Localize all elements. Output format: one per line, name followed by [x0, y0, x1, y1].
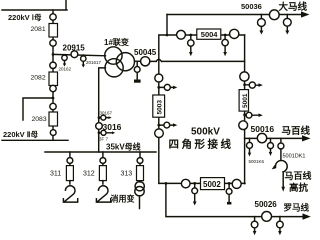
- svg-text:2081: 2081: [31, 26, 46, 33]
- svg-text:5001K6: 5001K6: [249, 159, 265, 164]
- wire to transformer: [53, 54, 106, 55]
- breaker 2082: [49, 72, 58, 86]
- svg-text:5001: 5001: [242, 93, 249, 108]
- transformer 313 winding2: [135, 187, 144, 196]
- wire hop over left branch: [156, 59, 161, 61]
- node junction feeder/transformer-wire: [52, 53, 55, 56]
- grounding switch below 3016: [99, 132, 112, 134]
- disconnector 2081-lower: [50, 40, 56, 46]
- svg-text:消用变: 消用变: [111, 194, 135, 204]
- transformer U1 winding MV: [116, 53, 134, 71]
- wire drop from top line to 5004 loop: [166, 15, 168, 36]
- svg-text:500kV: 500kV: [191, 126, 220, 137]
- grounding switch left of 50036: [260, 15, 262, 31]
- grounding switch 5002-left: [194, 183, 196, 201]
- breaker 5001: [239, 90, 248, 112]
- disconnector left-branch lower: [155, 129, 164, 138]
- disconnector 5002-right: [232, 179, 241, 188]
- grounding switch above 5003: [159, 86, 173, 88]
- disconnector reactor branch: [280, 138, 282, 143]
- bus 220kV I: [2, 0, 67, 10]
- grounding switch below 5003: [159, 124, 173, 126]
- svg-text:50016: 50016: [251, 124, 275, 134]
- wire 5004 loop top rail: [160, 34, 245, 36]
- branch 312: disconnector: [102, 152, 104, 181]
- disconnector right-branch upper: [240, 72, 249, 81]
- svg-text:5002: 5002: [203, 180, 221, 189]
- disconnector 5004-left: [177, 30, 186, 39]
- grounding switch right of 50036: [286, 15, 288, 31]
- breaker 311: [66, 166, 73, 181]
- breaker 5004: [197, 29, 221, 39]
- grounding switch 马百线-2: [270, 138, 272, 152]
- svg-text:马百线: 马百线: [282, 125, 311, 137]
- wire stub left from feeder-A: [23, 98, 53, 120]
- disconnector 5004-right: [230, 29, 239, 38]
- bus 35kV: [45, 151, 156, 153]
- svg-text:2083: 2083: [32, 116, 47, 123]
- disconnector below 2082: [50, 85, 56, 91]
- grounding switch 5004-right: [224, 35, 226, 52]
- transformer U1 1#联变 winding HV: [105, 47, 122, 64]
- wire 罗马线 drop and line: [166, 183, 305, 216]
- coil symbol branch 312: [96, 181, 110, 203]
- svg-text:5003: 5003: [157, 100, 164, 115]
- coil symbol branch 311: [63, 181, 77, 203]
- svg-text:3F 7: 3F 7: [99, 137, 109, 142]
- wire left quad branch vertical: [158, 35, 160, 183]
- svg-text:313: 313: [121, 171, 133, 178]
- wire 313 tail: [139, 196, 141, 209]
- svg-text:20915: 20915: [63, 43, 86, 52]
- transformer 313 winding1: [135, 182, 144, 191]
- wire 500kV lead / rail2: [135, 60, 157, 62]
- disconnector 50026: [262, 212, 272, 222]
- svg-text:30167: 30167: [100, 111, 113, 116]
- branch 313: disconnector: [139, 152, 141, 182]
- breaker 5002: [201, 178, 225, 190]
- wire 大马线 top line: [167, 14, 303, 16]
- svg-text:高抗: 高抗: [289, 182, 309, 194]
- svg-text:四角形接线: 四角形接线: [169, 137, 234, 150]
- grounding switch 马百线-1: [249, 138, 251, 152]
- breaker 312: [99, 166, 106, 181]
- grounding switch below 5001: [245, 114, 259, 116]
- wire feeder-A vertical: [52, 10, 54, 140]
- disconnector below 2083: [50, 130, 56, 136]
- grounding switch 30167: [99, 117, 109, 119]
- svg-text:2082: 2082: [31, 74, 46, 81]
- bus 220kV II: [2, 139, 68, 141]
- breaker 2081: [49, 24, 58, 38]
- branch 311: disconnector: [69, 152, 71, 181]
- svg-text:50045: 50045: [134, 48, 157, 57]
- svg-text:35kV母线: 35kV母线: [106, 141, 141, 151]
- breaker 313: [137, 166, 144, 181]
- disconnector 20915: [71, 51, 78, 58]
- svg-text:5004: 5004: [201, 30, 219, 39]
- breaker 2083: [49, 112, 58, 126]
- grounding switch 罗马线-1: [254, 217, 256, 231]
- disconnector on 马百线: [257, 133, 266, 142]
- disconnector 50016: [239, 121, 248, 130]
- node junction stub: [52, 97, 55, 100]
- disconnector 50036: [269, 10, 279, 20]
- disconnector 5002-left: [181, 179, 190, 188]
- svg-text:311: 311: [50, 171, 61, 178]
- wire 35kV lead: [99, 68, 106, 152]
- transformer U1 winding LV: [105, 59, 123, 77]
- wire rail2 to right branch: [162, 60, 245, 62]
- svg-text:220kV Ⅱ母: 220kV Ⅱ母: [3, 130, 38, 139]
- node junction top-line drop: [166, 34, 169, 37]
- grounding switch above 5001: [245, 84, 259, 86]
- wire 5002 loop bottom rail: [159, 182, 245, 184]
- breaker 5003: [153, 95, 165, 117]
- disconnector above 2083: [50, 103, 56, 109]
- disconnector left-branch upper: [155, 74, 163, 82]
- reactor 马百线高抗: [280, 149, 282, 161]
- grounding switch 5002-right: [228, 183, 230, 202]
- transformer neutral ground: [136, 63, 138, 80]
- svg-text:20162: 20162: [59, 67, 72, 72]
- svg-text:201617: 201617: [86, 60, 102, 65]
- disconnector 3016: [96, 123, 103, 130]
- svg-text:50036: 50036: [241, 2, 262, 11]
- disconnector 50045: [141, 57, 150, 66]
- svg-text:312: 312: [83, 171, 95, 178]
- svg-text:220kV Ⅰ母: 220kV Ⅰ母: [8, 13, 42, 22]
- svg-text:大马线: 大马线: [279, 1, 308, 13]
- grounding switch 罗马线-2: [279, 217, 281, 231]
- grounding switch 201617: [82, 55, 84, 65]
- svg-text:5001DK1: 5001DK1: [283, 154, 306, 160]
- disconnector 2081-upper: [50, 14, 56, 20]
- grounding switch 5004-left: [190, 35, 192, 52]
- wire right quad branch vertical: [244, 35, 246, 184]
- svg-text:马百线: 马百线: [285, 170, 312, 181]
- svg-text:罗马线: 罗马线: [284, 203, 310, 213]
- disconnector above 2082: [50, 62, 56, 68]
- svg-text:1#联变: 1#联变: [104, 37, 129, 47]
- svg-text:50026: 50026: [255, 200, 278, 209]
- grounding switch 20162: [64, 55, 66, 64]
- wire 马百线: [245, 137, 304, 139]
